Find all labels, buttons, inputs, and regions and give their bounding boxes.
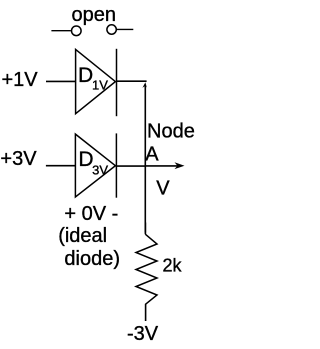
svg-text:D: D: [78, 64, 93, 87]
wire from +3V to diode D3V anode: [46, 165, 76, 167]
arrowhead up at top of right rail: [142, 82, 146, 88]
wire from D1V cathode to right rail: [117, 80, 147, 82]
svg-text:1V: 1V: [92, 78, 108, 93]
wire from +1V to diode D1V anode: [46, 80, 76, 82]
svg-text:-3V: -3V: [127, 323, 159, 345]
diode D1V cathode bar: [116, 49, 118, 116]
svg-text:+1V: +1V: [2, 69, 39, 91]
wire resistor top lead: [144, 223, 146, 235]
switch SW1 right contact circle: [107, 25, 116, 34]
svg-text:open: open: [72, 4, 117, 26]
svg-text:A: A: [145, 143, 159, 165]
switch SW1 right lead wire: [117, 28, 134, 30]
svg-text:diode): diode): [64, 248, 120, 270]
wire right vertical rail: [144, 85, 146, 233]
resistor R1 zigzag: [136, 234, 157, 304]
diode D3V triangle: [75, 134, 115, 197]
switch SW1 left contact circle: [72, 26, 82, 36]
wire from D3V cathode to node A junction: [116, 165, 145, 167]
svg-text:+ 0V -: + 0V -: [64, 203, 118, 225]
diode D1V triangle: [76, 49, 116, 113]
svg-text:Node: Node: [147, 121, 195, 143]
svg-text:+3V: +3V: [0, 148, 37, 170]
svg-text:3V: 3V: [92, 163, 108, 178]
switch SW1 left lead wire: [51, 30, 71, 32]
wire resistor bottom lead: [145, 304, 147, 321]
diode D3V cathode bar: [115, 133, 117, 197]
svg-text:2k: 2k: [163, 255, 183, 275]
svg-text:(ideal: (ideal: [58, 225, 107, 247]
svg-text:V: V: [156, 178, 170, 200]
node A output arrow: [145, 165, 178, 167]
